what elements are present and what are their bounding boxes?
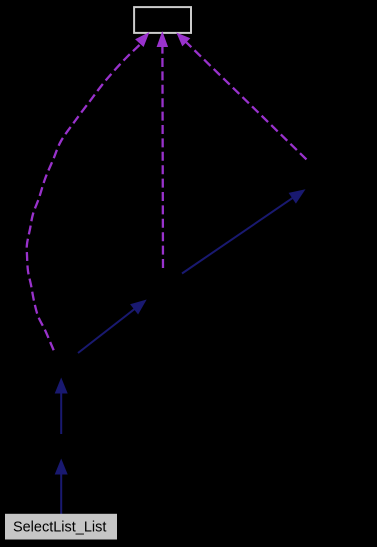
wire: dashed purple edge node3 to top box: [176, 33, 307, 161]
wire: solid blue edge node1 to node2: [78, 300, 147, 354]
wire: solid blue edge node4 to node1: [55, 378, 68, 435]
wire: dashed purple curved edge node1 to top box: [27, 32, 150, 351]
svg-text:SelectList_List: SelectList_List: [13, 519, 107, 535]
wire: solid blue edge node2 to node3: [182, 189, 306, 273]
wire: dashed purple edge node2 to top box: [157, 31, 169, 272]
wire: solid blue edge SelectList_List to node4: [55, 459, 68, 517]
top class node (empty box): [134, 7, 191, 33]
node SelectList_List: [5, 514, 117, 540]
